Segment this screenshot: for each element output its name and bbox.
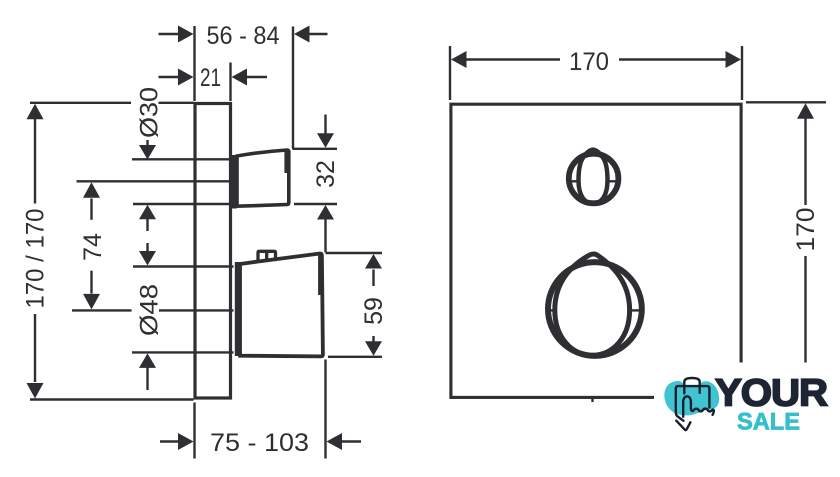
svg-text:56 - 84: 56 - 84 [207,22,280,50]
svg-text:32: 32 [312,160,340,188]
svg-text:SALE: SALE [737,408,800,435]
svg-text:170 / 170: 170 / 170 [22,209,50,309]
svg-text:Ø30: Ø30 [136,87,164,138]
svg-text:170: 170 [792,208,820,252]
svg-text:170: 170 [569,48,609,76]
svg-text:Ø48: Ø48 [136,284,164,336]
svg-text:59: 59 [360,297,388,325]
svg-text:75 - 103: 75 - 103 [210,429,309,457]
svg-text:21: 21 [200,64,221,92]
svg-text:74: 74 [79,233,107,261]
